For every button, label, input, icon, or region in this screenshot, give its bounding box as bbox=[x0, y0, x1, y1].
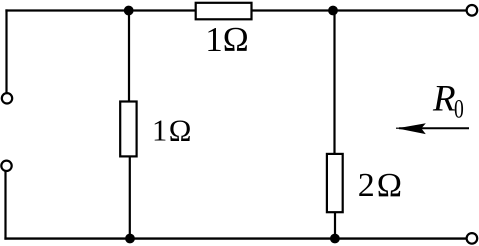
svg-text:2Ω: 2Ω bbox=[358, 167, 404, 204]
resistor R1 1ohm (top, horizontal box) bbox=[196, 3, 252, 20]
junction dot bottom-right node bbox=[330, 234, 340, 244]
svg-text:1Ω: 1Ω bbox=[205, 20, 249, 59]
wire left vertical (lower terminal down to bottom-left corner) bbox=[4, 171, 6, 239]
wire middle branch lower vertical bbox=[129, 157, 131, 239]
arrow R0 pointing left: tip whisker bbox=[396, 127, 404, 129]
resistor R2 1ohm (middle, vertical box) bbox=[120, 102, 136, 157]
junction dot top-right node bbox=[328, 6, 338, 16]
wire right branch upper vertical bbox=[333, 11, 335, 154]
wire left vertical (top-left corner down to upper terminal) bbox=[5, 9, 7, 92]
svg-text:1Ω: 1Ω bbox=[152, 114, 193, 148]
wire bottom horizontal bbox=[4, 237, 466, 239]
wire top-left horizontal segment bbox=[5, 9, 195, 11]
junction dot bottom-left node bbox=[125, 234, 135, 244]
resistor R3 2ohm (right, vertical box) bbox=[327, 154, 343, 212]
terminal lower-left (open circle) bbox=[1, 161, 11, 171]
arrow R0 pointing left: shaft bbox=[399, 127, 469, 129]
terminal upper-left (open circle) bbox=[2, 93, 12, 103]
arrow R0 pointing left: head bbox=[399, 124, 425, 134]
junction dot top-left node bbox=[124, 6, 134, 16]
wire top-right horizontal segment bbox=[252, 9, 467, 11]
terminal bottom-right (open circle) bbox=[467, 233, 478, 244]
svg-text:0: 0 bbox=[454, 95, 464, 124]
terminal top-right (open circle) bbox=[467, 5, 478, 16]
svg-text:R: R bbox=[432, 79, 456, 120]
wire right branch lower vertical bbox=[334, 213, 336, 239]
wire middle branch upper vertical bbox=[128, 11, 130, 102]
